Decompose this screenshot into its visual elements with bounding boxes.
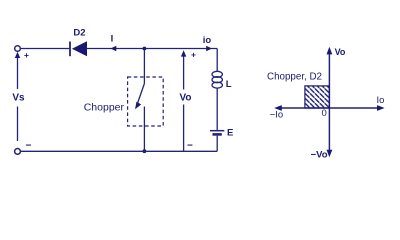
- wire (right branch top): [216, 49, 218, 72]
- svg-text:E: E: [227, 128, 233, 139]
- wire (right branch middle): [216, 88, 218, 130]
- io arrow: [206, 46, 212, 51]
- Vo measuring arrow (upper): [183, 53, 185, 90]
- svg-text:+: +: [24, 50, 29, 60]
- bottom wire: [21, 150, 218, 152]
- svg-text:L: L: [226, 79, 232, 90]
- wire: [87, 48, 217, 50]
- svg-text:I: I: [111, 34, 114, 45]
- chopper dashed enclosure: [128, 77, 164, 126]
- battery E: [210, 131, 224, 135]
- Vo measuring arrow (lower segment): [183, 105, 185, 152]
- wire (chopper feed): [143, 49, 145, 84]
- Vs polarity arrowhead: [15, 52, 20, 58]
- svg-text:−Io: −Io: [270, 110, 283, 121]
- terminal + (top-left): [15, 46, 21, 52]
- svg-text:0: 0: [322, 108, 327, 119]
- svg-text:Chopper, D2: Chopper, D2: [267, 72, 322, 83]
- quadrant diagram: vertical axis Vo: [328, 52, 330, 152]
- current arrow I: [111, 46, 117, 51]
- svg-text:io: io: [203, 35, 212, 46]
- svg-text:−Vo: −Vo: [311, 150, 328, 161]
- svg-text:Vo: Vo: [179, 93, 191, 104]
- node (chopper top junction): [143, 47, 147, 51]
- inductor L coil: [212, 71, 222, 88]
- quadrant diagram: horizontal axis Io: [278, 107, 381, 109]
- wire (chopper lower lead): [143, 107, 145, 152]
- wire (right branch bottom): [216, 136, 218, 152]
- diode D2: [70, 41, 87, 56]
- svg-text:+: +: [191, 50, 196, 60]
- switch arm (chopper switch): [135, 84, 144, 110]
- wire (left source branch, upper): [17, 54, 19, 89]
- svg-text:Vs: Vs: [12, 93, 25, 104]
- svg-text:Io: Io: [377, 95, 385, 106]
- svg-text:Chopper: Chopper: [84, 102, 125, 114]
- wire: [20, 48, 69, 50]
- terminal - (bottom-left): [15, 149, 21, 155]
- svg-text:D2: D2: [73, 28, 85, 39]
- svg-text:−: −: [187, 141, 193, 152]
- wire (left source branch, lower): [17, 107, 19, 142]
- node (chopper bottom junction): [143, 149, 147, 153]
- svg-text:Vo: Vo: [335, 47, 346, 57]
- operating region (hatched, quadrant II): [305, 86, 330, 108]
- svg-text:−: −: [26, 141, 32, 152]
